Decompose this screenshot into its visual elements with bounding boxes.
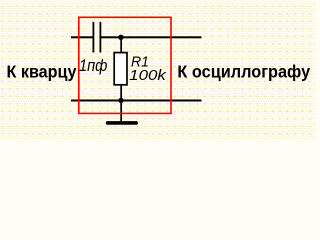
wire: resistor R1 pin 2 down to bottom net [120, 85, 122, 122]
svg-text:100k: 100k [129, 67, 167, 84]
resistor R1 body [114, 53, 127, 85]
node A: junction dot at capacitor/resistor tap [118, 35, 123, 40]
red highlight box around probe network [79, 17, 171, 113]
wire: node A down to resistor R1 pin 1 [120, 37, 122, 53]
svg-text:К кварцу: К кварцу [7, 61, 77, 81]
wire: top net, left stub to capacitor [71, 36, 93, 38]
svg-text:1пф: 1пф [79, 57, 108, 75]
node B: junction dot on bottom net [118, 98, 123, 103]
ground [106, 121, 138, 125]
wire: bottom net [71, 100, 202, 102]
wire: top net, capacitor to right stub end [101, 36, 202, 38]
svg-text:К осциллографу: К осциллографу [177, 61, 310, 81]
capacitor C (1пф) [93, 22, 102, 53]
